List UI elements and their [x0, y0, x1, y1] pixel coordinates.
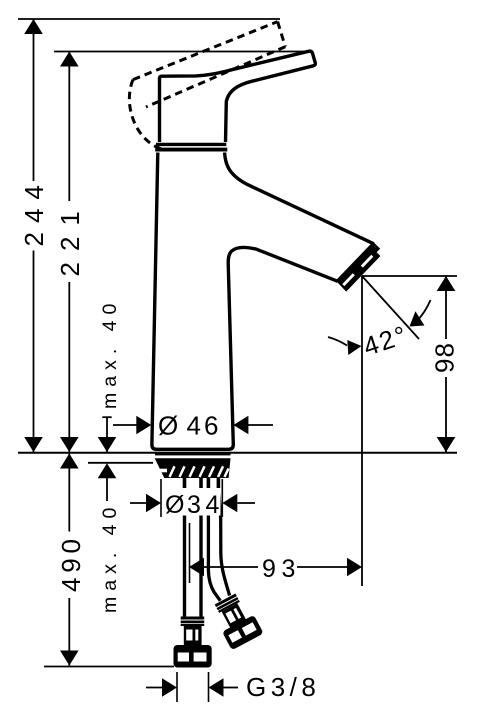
dimension 221 line — [68, 52, 70, 202]
42 degree arc arrow left — [328, 337, 347, 346]
aerator band — [338, 244, 379, 290]
flange hatch slashes — [170, 466, 229, 477]
svg-text:3: 3 — [187, 491, 201, 519]
svg-text:Ø: Ø — [165, 491, 184, 519]
faucet body cone — [152, 153, 338, 450]
extension line top (raised handle tip, 244 reference) — [18, 18, 280, 20]
counter underside line — [88, 462, 153, 464]
dimension G3/8 left arrow — [146, 687, 163, 689]
mounting flange lip — [155, 452, 231, 456]
hose diagonal connector — [209, 591, 264, 651]
svg-text:6: 6 — [204, 411, 218, 441]
svg-text:G3/8: G3/8 — [246, 672, 320, 702]
dimension Ø34 extension lines — [160, 479, 162, 517]
svg-text:Ø: Ø — [158, 411, 178, 441]
svg-text:3: 3 — [282, 555, 296, 583]
flange white notch — [157, 469, 167, 473]
hose straight nut — [184, 626, 202, 646]
svg-text:98: 98 — [430, 342, 460, 373]
dimension 98 line — [445, 276, 447, 339]
extension line 490 bottom — [44, 666, 174, 668]
dimension 490 line — [68, 454, 70, 532]
dimension 93 right arrow — [297, 566, 348, 568]
collar bar 2 — [155, 148, 227, 152]
arrow down 244 — [24, 437, 43, 452]
arrow up max.40 lower — [98, 463, 117, 478]
dimension Ø46 left arrow — [113, 424, 137, 426]
dimension 244 line — [33, 19, 35, 181]
arrow up 244 — [24, 19, 43, 34]
aerator white slash 2 — [343, 274, 354, 285]
svg-text:221: 221 — [55, 200, 85, 276]
aerator white slash 1 — [362, 256, 373, 267]
svg-text:490: 490 — [56, 534, 86, 592]
hose straight tube — [183, 489, 186, 617]
svg-text:4: 4 — [187, 411, 201, 441]
dimension max.40 lower tail — [106, 478, 108, 501]
dimension max.40 upper tick — [102, 416, 111, 418]
counter top line — [18, 452, 457, 454]
dimension G3/8 extension lines — [176, 672, 178, 702]
dimension Ø46 right arrow — [248, 424, 273, 426]
faucet centre axis line — [189, 523, 191, 583]
hose straight crimp ferrule — [181, 617, 205, 620]
extension line 221 (handle top corner) — [54, 51, 310, 53]
collar bar 1 — [156, 143, 226, 146]
dimension Ø34 right arrow — [237, 502, 255, 504]
dashed handle raised: tip face — [278, 22, 286, 47]
spout outlet face — [338, 244, 374, 281]
svg-text:max. 40: max. 40 — [99, 298, 121, 409]
svg-text:4: 4 — [206, 491, 220, 519]
arrow up 490 — [60, 454, 79, 469]
dimension 93 left arrow — [189, 558, 204, 577]
hose diagonal tube — [208, 489, 220, 601]
arrow up 98 — [437, 276, 456, 291]
dimension G3/8 right arrow — [209, 678, 224, 697]
42 degree arc arrow right — [416, 300, 431, 322]
arrow up 221 — [60, 52, 79, 67]
42 degree diagonal — [362, 276, 419, 339]
arrow down 490 — [60, 651, 79, 666]
spout horizontal extension line — [362, 275, 457, 277]
arrow down max.40 upper — [98, 437, 117, 452]
supply pipes below flange — [185, 478, 219, 489]
svg-text:9: 9 — [262, 555, 276, 583]
svg-text:max. 40: max. 40 — [99, 502, 121, 613]
white box for Ø34 label — [163, 488, 221, 516]
dashed handle raised: rear arc — [129, 80, 161, 150]
hose straight end block G3/8 — [174, 645, 212, 668]
dashed handle raised: lower edge — [146, 47, 285, 107]
mounting flange body — [155, 458, 231, 478]
faucet handle and cartridge housing — [160, 51, 316, 142]
svg-text:244: 244 — [19, 176, 49, 246]
dimension Ø34 left arrow — [130, 502, 147, 504]
spout vertical reference line — [361, 276, 363, 586]
spout top edge — [225, 153, 374, 244]
dimension max.40 upper line — [106, 417, 108, 452]
arrow down 221 — [60, 437, 79, 452]
arrow down 98 — [437, 437, 456, 452]
dashed handle raised: upper edge — [133, 22, 278, 80]
